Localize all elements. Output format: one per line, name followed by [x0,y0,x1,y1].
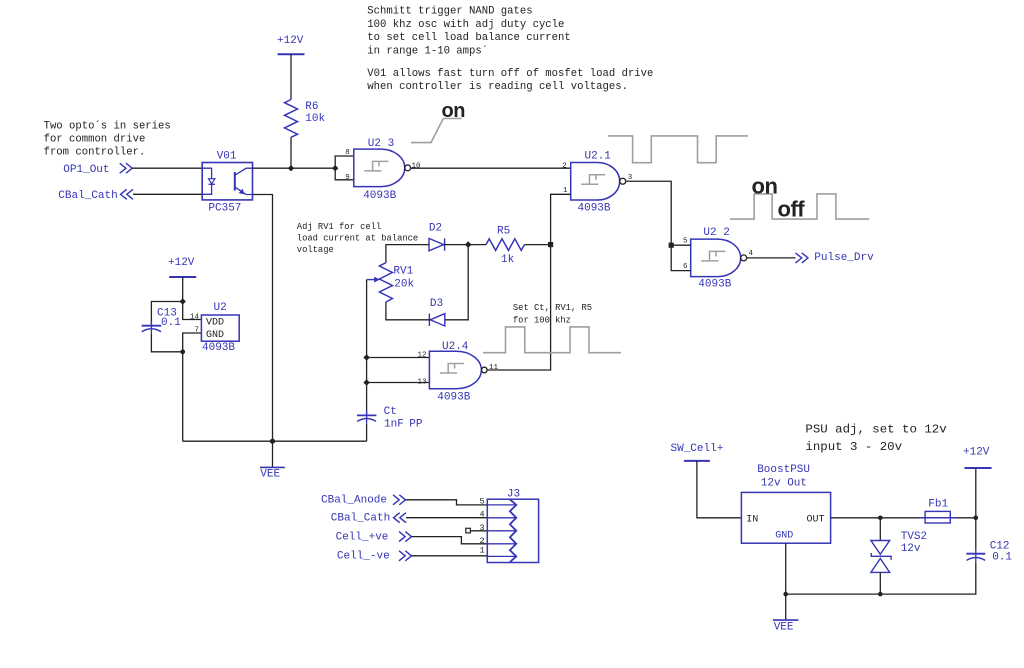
svg-text:12v Out: 12v Out [761,477,807,489]
svg-text:PP: PP [409,419,423,431]
junction Fb1/+12V [974,516,979,521]
svg-text:VEE: VEE [260,469,280,481]
svg-text:4093B: 4093B [437,391,470,403]
svg-text:IN: IN [746,515,758,526]
wire U2 3 output to U2.1 pin 2 [411,167,571,169]
svg-text:J3: J3 [507,488,520,500]
junction R6/opto [288,165,294,171]
ground VEE (left) [260,441,285,481]
svg-text:20k: 20k [394,279,414,291]
svg-text:in range 1-10 amps´: in range 1-10 amps´ [367,45,488,58]
potentiometer RV1 20k [367,263,415,302]
junction C13 top [180,298,186,304]
wire U2 2 output [747,257,796,259]
wire to U2.4 pin 13 [367,382,430,384]
wire SW_Cell+ to BoostPSU IN [697,461,742,518]
svg-text:VEE: VEE [774,622,794,634]
svg-text:2: 2 [562,162,567,170]
svg-text:for common drive: for common drive [44,134,146,146]
wire R6 to node [290,137,292,168]
svg-text:on: on [752,173,778,198]
power +12V (PSU) [963,447,992,518]
wire CBal_Anode to J3 pin5 [406,500,488,505]
svg-text:11: 11 [489,364,499,372]
wire +12V to junction [182,277,184,302]
junction rail/GND [783,592,788,597]
junction VEE rail [270,439,275,444]
wire RV1 top to D2 [386,245,429,263]
svg-text:when controller is reading cel: when controller is reading cell voltages… [367,81,628,93]
junction C13 bottom [180,349,185,354]
svg-text:GND: GND [775,531,793,542]
svg-text:14: 14 [190,313,200,321]
junction U2.4 pin13 [363,379,369,385]
grey waveform A [608,136,748,163]
NAND gate U2.4 (4093B) [429,341,487,403]
junction U2 3 input [332,165,338,171]
svg-text:Ct: Ct [384,406,397,418]
wire OP1_Out to opto [132,167,202,169]
node CBal_Cath label [58,189,133,202]
wire opto collector to U2 3 input [253,167,336,169]
node CBal_Anode (J3) [321,494,406,506]
svg-text:100 khz osc with adj duty cycl: 100 khz osc with adj duty cycle [367,19,564,31]
resistor R5 [486,226,525,266]
wire Ct to VEE rail [366,424,368,441]
svg-text:12: 12 [418,352,427,360]
svg-text:4093B: 4093B [363,190,396,202]
svg-text:CBal_Anode: CBal_Anode [321,494,387,506]
svg-text:U2 2: U2 2 [703,227,729,239]
wire U2.1 output to U2 2 input [626,181,672,245]
note text: schmitt trigger description [367,6,653,93]
wire VEE rail (left) [183,440,367,442]
note text: adj RV1 for cell [297,222,418,255]
svg-text:0.1: 0.1 [161,317,181,329]
wire opto emitter down to VEE rail [253,195,273,442]
svg-text:1k: 1k [501,254,515,266]
note text: PSU adj [805,423,947,455]
capacitor Ct 1nF PP [357,406,423,431]
wire Cell_+ve to J3 pin2 [412,537,488,544]
svg-text:for 100 khz: for 100 khz [513,316,571,326]
wire U2.1 pin1 to oscillator node [551,194,571,244]
NAND gate U2 3 (4093B) [354,138,411,202]
junction U2.4 pin12 [363,354,369,360]
svg-text:Cell_+ve: Cell_+ve [336,531,389,543]
capacitor C12 0.1 [966,518,1012,564]
junction U2 2 input [669,243,674,248]
IC U2 power block 4093B [201,302,239,354]
junction rail/TVS2 [878,592,883,597]
svg-text:load current at balance: load current at balance [297,234,418,244]
no-connect square J3 pin3 [466,528,471,533]
capacitor C13 0.1 [142,307,182,334]
svg-text:D3: D3 [430,298,443,310]
diode D3 [429,298,444,326]
wire R5 to osc node [525,244,551,246]
diode D2 [429,222,445,250]
svg-text:3: 3 [480,523,485,533]
junction osc node [548,242,553,247]
svg-text:D2: D2 [429,222,442,234]
wire Cell_-ve to J3 pin1 [412,555,488,557]
svg-text:5: 5 [683,238,688,246]
wire junction to U2 pin14 [183,302,202,320]
node Cell_+ve (J3) [336,531,412,543]
svg-text:Set Ct, RV1, R5: Set Ct, RV1, R5 [513,303,592,313]
NAND gate U2.1 (4093B) [571,150,626,214]
svg-text:U2: U2 [214,302,227,314]
svg-text:13: 13 [418,378,428,386]
connector J3 [487,488,538,562]
wire junction to R5 [468,244,486,246]
svg-text:Fb1: Fb1 [928,498,948,510]
node CBal_Cath (J3) [331,513,406,525]
svg-text:U2 3: U2 3 [368,138,394,150]
svg-text:OUT: OUT [807,515,825,526]
wire junction to C13 [151,302,182,326]
resistor R6 [285,100,326,138]
svg-text:on: on [442,100,465,122]
NAND gate U2 2 (4093B) [691,227,747,291]
wire C12 to rail [786,562,976,594]
svg-text:5: 5 [480,496,485,506]
svg-text:V01 allows fast turn off of mo: V01 allows fast turn off of mosfet load … [367,68,653,80]
wire U2 3 input bracket [335,156,354,180]
svg-text:input 3 - 20v: input 3 - 20v [805,440,902,454]
svg-text:8: 8 [345,149,350,157]
svg-text:PC357: PC357 [208,203,241,215]
opto-coupler V01 PC357 [202,151,252,215]
note text: set Ct RV1 R5 [513,303,592,325]
svg-text:off: off [778,197,806,222]
svg-text:V01: V01 [217,151,237,163]
junction D2/R5 [465,241,472,248]
svg-text:4093B: 4093B [698,279,731,291]
wire U2 2 input pin6 [671,245,691,270]
svg-text:4093B: 4093B [202,342,235,354]
svg-text:Pulse_Drv: Pulse_Drv [814,252,874,264]
wire U2.4 output up to osc node [487,245,550,370]
svg-text:10: 10 [412,162,422,170]
grey waveform B [730,194,869,219]
svg-text:SW_Cell+: SW_Cell+ [671,443,724,455]
svg-text:BoostPSU: BoostPSU [757,464,810,476]
wire RV1 wiper down to Ct [366,280,368,416]
svg-text:4: 4 [480,510,485,520]
wire CBal_Cath to J3 pin4 [406,517,487,519]
svg-text:voltage: voltage [297,245,334,255]
power +12V (top, R6) [277,35,305,54]
note text: two optos in series [44,119,171,158]
wire U2 2 input pin5 [671,244,691,246]
ground VEE (PSU) [773,594,799,633]
svg-text:RV1: RV1 [393,265,413,277]
wire D2 junction down to D3 [445,245,468,320]
regulator BoostPSU [741,464,830,543]
wire BoostPSU OUT [831,517,976,519]
svg-text:+12V: +12V [168,257,195,269]
wire CBal_Cath to opto [133,193,202,195]
svg-text:Adj RV1 for cell: Adj RV1 for cell [297,222,381,232]
wire +12V to R6 [290,54,292,99]
node Pulse_Drv [796,252,875,264]
svg-text:R6: R6 [305,101,318,113]
junction OUT/TVS2 [878,516,883,521]
svg-text:U2.4: U2.4 [442,341,469,353]
svg-text:Two opto´s in series: Two opto´s in series [44,119,171,132]
svg-text:0.1: 0.1 [992,552,1012,564]
svg-text:R5: R5 [497,226,510,238]
wire to U2.4 pin 12 [367,357,430,359]
svg-text:U2.1: U2.1 [585,150,612,162]
svg-text:OP1_Out: OP1_Out [63,164,109,176]
svg-text:7: 7 [195,326,200,334]
svg-text:+12V: +12V [963,447,990,459]
svg-text:CBal_Cath: CBal_Cath [58,190,117,202]
svg-text:10k: 10k [305,113,325,125]
svg-text:1nF: 1nF [384,419,404,431]
svg-text:2: 2 [480,536,485,546]
svg-text:TVS2: TVS2 [901,531,927,543]
wire D2 to junction [444,244,469,246]
wire J3 pin3 stub [470,530,487,532]
svg-text:9: 9 [345,174,350,182]
svg-text:CBal_Cath: CBal_Cath [331,513,390,525]
power +12V (C13/U2) [168,257,196,277]
grey waveform C [483,327,621,353]
svg-text:to set cell load balance curre: to set cell load balance current [367,32,570,44]
node Cell_-ve (J3) [337,551,412,563]
svg-text:PSU adj, set to 12v: PSU adj, set to 12v [805,423,947,437]
wire TVS2 to rail [879,572,881,594]
svg-text:+12V: +12V [277,35,304,47]
grey ramp glyph [411,119,462,143]
wire D3 to RV1 bottom [386,302,430,320]
svg-text:1: 1 [480,546,485,556]
node SW_Cell+ [671,443,724,461]
TVS diode TVS2 12v [871,518,927,573]
wire BoostPSU GND to rail [785,543,787,594]
svg-text:from controller.: from controller. [44,147,146,159]
node OP1_Out label [63,163,132,176]
svg-text:GND: GND [206,330,224,341]
svg-text:Cell_-ve: Cell_-ve [337,551,390,563]
svg-text:4: 4 [749,250,754,258]
wire C13 bottom to junction [151,334,182,352]
svg-text:VDD: VDD [206,317,224,328]
fuse bead Fb1 [919,498,957,523]
wire U2 pin7 down to VEE rail [183,333,202,441]
svg-text:4093B: 4093B [578,202,611,214]
svg-text:Schmitt trigger NAND gates: Schmitt trigger NAND gates [367,6,532,18]
svg-text:12v: 12v [901,543,921,555]
